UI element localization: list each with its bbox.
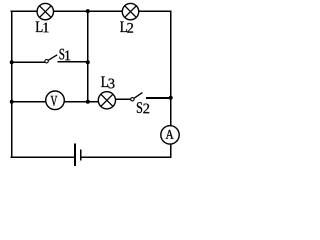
- label S2: [137, 102, 142, 113]
- label L3: [101, 77, 108, 87]
- node: left-row3 junction: [10, 100, 14, 104]
- wire: top side (left corner to right corner): [12, 10, 171, 12]
- node: right-S2 junction: [169, 96, 173, 100]
- node: left-row2 junction: [10, 60, 14, 64]
- battery cell: [75, 144, 81, 167]
- wire: row2 left (left side to switch S1 pivot): [12, 61, 46, 63]
- voltmeter V: [46, 91, 65, 110]
- wire: right side vertical: [170, 11, 172, 157]
- wire: bottom left segment (corner to battery): [12, 156, 75, 158]
- wire: middle vertical branch (top wire to node B): [87, 11, 89, 101]
- lamp L2: [122, 3, 138, 19]
- switch S2: [131, 93, 171, 101]
- node: mid-row2 junction (S1 bar end): [86, 60, 90, 64]
- label L1: [36, 22, 43, 32]
- label L2: [120, 22, 127, 32]
- wire: L3 to S2 pivot stub: [107, 98, 131, 100]
- switch S1: [45, 55, 88, 63]
- wire: bottom right segment (battery to corner): [81, 156, 171, 158]
- node: top-mid junction: [86, 9, 90, 13]
- wire: row3 (left side through V and L3 to S2 pivot): [12, 101, 108, 103]
- node: mid-row3 junction: [86, 100, 90, 104]
- lamp L3: [98, 92, 115, 109]
- label S1: [60, 49, 65, 60]
- lamp L1: [37, 3, 53, 19]
- wire: left side vertical: [11, 11, 13, 157]
- ammeter A: [161, 126, 179, 144]
